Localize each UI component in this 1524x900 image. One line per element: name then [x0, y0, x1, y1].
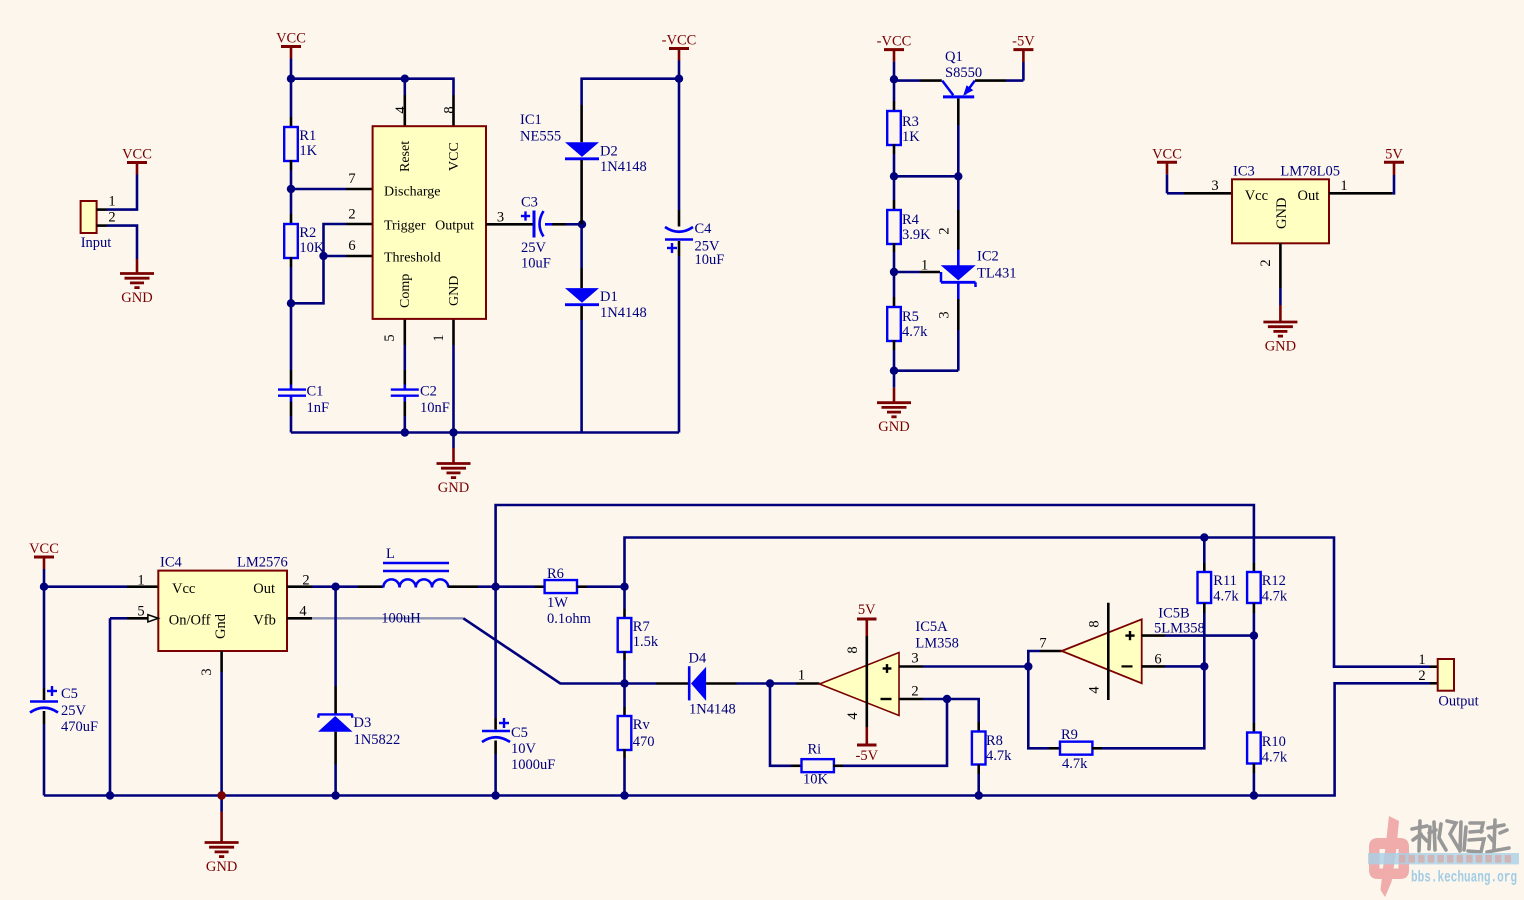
resistor R6	[496, 585, 535, 588]
node R5-gnd junction	[890, 367, 898, 375]
svg-text:R2: R2	[299, 225, 316, 241]
diode D2 1N4148	[580, 105, 583, 142]
wire ref pin 1 (TL431)	[894, 271, 920, 274]
svg-text:VCC: VCC	[29, 541, 59, 557]
node pin2 junction	[943, 695, 951, 703]
wire D2 top rail	[582, 79, 679, 105]
resistor Rv	[623, 684, 626, 708]
wire pin1 Vcc (IC4)	[44, 585, 127, 588]
svg-text:1: 1	[921, 258, 928, 274]
svg-text:C2: C2	[420, 384, 437, 400]
svg-text:10K: 10K	[803, 772, 829, 788]
watermark tagline bar	[1368, 853, 1519, 864]
svg-text:1: 1	[108, 194, 115, 210]
svg-text:Q1: Q1	[945, 49, 963, 65]
wire pin3 (IC5A +)	[899, 665, 923, 668]
wire pin1 (IC5A)	[770, 682, 796, 685]
svg-text:GND: GND	[206, 859, 237, 875]
connector Output	[1438, 659, 1454, 691]
svg-text:2: 2	[911, 684, 918, 700]
node pin3-pin7 junction	[1024, 662, 1032, 670]
svg-text:IC2: IC2	[977, 249, 999, 265]
svg-text:2: 2	[302, 573, 309, 589]
svg-text:D4: D4	[689, 651, 707, 667]
node C2 bus junction	[401, 428, 409, 436]
svg-text:1N5822: 1N5822	[354, 732, 401, 748]
wire pin3 Vcc (IC3)	[1167, 192, 1184, 195]
svg-text:7: 7	[348, 171, 355, 187]
svg-text:3: 3	[911, 651, 918, 667]
node R2-C1 junction	[287, 299, 295, 307]
resistor R3	[893, 79, 896, 101]
svg-text:Reset: Reset	[398, 141, 413, 172]
svg-text:5V: 5V	[858, 602, 876, 618]
wire pin6 Threshold	[346, 255, 373, 258]
svg-text:1N4148: 1N4148	[600, 305, 647, 321]
svg-text:GND: GND	[1265, 339, 1296, 355]
svg-text:2: 2	[1258, 259, 1274, 266]
connector J Input	[81, 201, 97, 233]
svg-text:25V: 25V	[521, 240, 547, 256]
svg-text:1: 1	[798, 668, 805, 684]
svg-text:R3: R3	[902, 114, 919, 130]
wire Vfb diagonal	[463, 618, 624, 683]
feedback rail 2	[625, 538, 1431, 667]
svg-text:3: 3	[937, 311, 953, 318]
pin 2 (Input)	[97, 224, 107, 227]
svg-text:Out: Out	[1298, 188, 1320, 204]
wire pin2 GND (IC3)	[1279, 243, 1282, 288]
svg-text:R12: R12	[1262, 573, 1286, 589]
wire pin1 to VCC	[107, 208, 137, 211]
svg-text:1000uF: 1000uF	[511, 757, 555, 773]
svg-text:C1: C1	[307, 384, 324, 400]
svg-text:8: 8	[845, 646, 861, 653]
svg-text:10nF: 10nF	[420, 400, 450, 416]
svg-text:IC4: IC4	[160, 555, 183, 571]
svg-text:Discharge: Discharge	[384, 185, 441, 200]
node D3 bus junction	[331, 791, 339, 799]
svg-text:2: 2	[108, 210, 115, 226]
svg-text:8: 8	[1086, 620, 1102, 627]
svg-text:R7: R7	[633, 619, 650, 635]
node VCC rail left	[287, 75, 295, 83]
svg-text:1K: 1K	[902, 129, 920, 145]
svg-text:100uH: 100uH	[381, 611, 421, 627]
svg-text:5V: 5V	[1385, 146, 1403, 162]
svg-text:-5V: -5V	[1012, 34, 1035, 50]
node -VCC base junction	[890, 75, 898, 83]
svg-text:C5: C5	[511, 725, 528, 741]
node Gnd bus junction (red)	[217, 791, 225, 799]
wire pin2 Trigger	[346, 223, 373, 226]
svg-text:VCC: VCC	[122, 147, 152, 163]
svg-text:Threshold: Threshold	[384, 251, 441, 266]
svg-text:On/Off: On/Off	[169, 613, 211, 629]
svg-text:Out: Out	[253, 581, 275, 597]
power -5V (IC5A pin4)	[865, 727, 868, 745]
svg-text:4.7k: 4.7k	[1213, 589, 1239, 605]
watermark forum name	[1412, 820, 1509, 852]
wire pin7 (IC5B out)	[1028, 651, 1040, 667]
node Out-D3 junction	[331, 583, 339, 591]
diode D1 1N4148	[580, 224, 583, 268]
wire pin4 Vfb light segment	[287, 617, 312, 620]
diode D3 1N5822	[334, 587, 337, 686]
svg-text:IC1: IC1	[520, 112, 542, 128]
wire pin7 Discharge	[291, 188, 346, 191]
wire pin8 stub	[452, 95, 455, 126]
svg-text:VCC: VCC	[276, 31, 306, 47]
svg-text:R9: R9	[1061, 727, 1078, 743]
node gnd junction (555)	[449, 428, 457, 436]
node rail2-R11 junction	[1200, 533, 1208, 541]
svg-text:Gnd: Gnd	[213, 613, 229, 639]
svg-text:4.7k: 4.7k	[986, 748, 1012, 764]
svg-text:GND: GND	[878, 419, 909, 435]
svg-text:Trigger: Trigger	[384, 219, 426, 234]
ground GND (input block)	[136, 258, 139, 261]
svg-text:470: 470	[633, 734, 655, 750]
wire emitter to -5V	[975, 79, 1006, 82]
bottom bus	[44, 683, 1430, 795]
node trigger-threshold junction	[319, 252, 327, 260]
svg-text:R6: R6	[547, 566, 564, 582]
svg-text:10V: 10V	[511, 741, 537, 757]
wire pin2 to GND	[107, 226, 137, 259]
svg-text:4.7k: 4.7k	[1062, 756, 1088, 772]
resistor R1	[290, 79, 293, 117]
wire pin1 Out (IC3)	[1329, 192, 1392, 195]
svg-text:4: 4	[393, 106, 409, 114]
svg-text:GND: GND	[447, 276, 462, 306]
svg-text:D1: D1	[600, 289, 618, 305]
svg-text:GND: GND	[438, 480, 469, 496]
wire pin5 (IC5B +)	[1142, 634, 1165, 637]
node On/Off bus junction	[106, 791, 114, 799]
node C5 bus junction	[491, 791, 499, 799]
svg-text:-VCC: -VCC	[662, 33, 697, 49]
svg-text:LM358: LM358	[915, 636, 959, 652]
svg-text:1nF: 1nF	[307, 400, 330, 416]
svg-text:3.9K: 3.9K	[902, 227, 931, 243]
node pin6 junction	[1200, 662, 1208, 670]
svg-text:TL431: TL431	[977, 266, 1016, 282]
svg-text:Rv: Rv	[633, 717, 651, 733]
svg-text:-VCC: -VCC	[877, 34, 912, 50]
svg-text:3: 3	[497, 210, 504, 226]
wire gnd bus (555)	[291, 431, 679, 434]
svg-text:1: 1	[137, 573, 144, 589]
node L-C5 junction	[491, 583, 499, 591]
svg-text:S8550: S8550	[945, 65, 982, 81]
svg-text:2: 2	[937, 227, 953, 234]
node R7-Rv-D4 junction	[620, 679, 628, 687]
svg-text:4: 4	[1086, 686, 1102, 694]
svg-text:4.7k: 4.7k	[1262, 589, 1288, 605]
wire pins 8-4 (IC5B)	[1107, 603, 1110, 700]
svg-text:C4: C4	[695, 221, 713, 237]
svg-text:8: 8	[442, 106, 458, 113]
svg-text:Vcc: Vcc	[1245, 188, 1268, 204]
node D4-pin1 junction	[766, 679, 774, 687]
node R3-R4 junction	[890, 172, 898, 180]
svg-text:1N4148: 1N4148	[689, 702, 736, 718]
capacitor C1	[290, 303, 293, 370]
svg-text:C5: C5	[61, 686, 78, 702]
wire pin5 On/Off	[148, 615, 158, 622]
svg-text:Output: Output	[1438, 694, 1478, 710]
op-amp IC5B LM358 body	[1062, 619, 1142, 683]
svg-text:IC5B: IC5B	[1158, 605, 1189, 621]
chip IC4 LM2576 body	[158, 571, 287, 651]
svg-text:VCC: VCC	[447, 142, 462, 171]
svg-text:470uF: 470uF	[61, 719, 98, 735]
svg-text:IC5A: IC5A	[915, 619, 948, 635]
svg-text:Ri: Ri	[808, 742, 822, 758]
svg-text:6: 6	[1154, 652, 1161, 668]
svg-text:GND: GND	[1274, 198, 1290, 229]
svg-text:R11: R11	[1213, 573, 1237, 589]
svg-text:Output: Output	[435, 219, 474, 234]
svg-text:7: 7	[1039, 636, 1046, 652]
feedback rail 1	[496, 505, 1254, 587]
svg-text:IC3: IC3	[1233, 164, 1255, 180]
svg-text:3: 3	[199, 668, 215, 675]
svg-text:10uF: 10uF	[695, 252, 725, 268]
node -VCC junction	[675, 75, 683, 83]
svg-text:2: 2	[1418, 668, 1425, 684]
capacitor C2	[403, 345, 406, 370]
resistor R7	[623, 587, 626, 609]
svg-text:4: 4	[845, 712, 861, 720]
wire pin6 (IC5B -)	[1142, 665, 1165, 668]
svg-text:LM78L05: LM78L05	[1280, 164, 1340, 180]
svg-text:1: 1	[1340, 178, 1347, 194]
svg-text:4.7k: 4.7k	[902, 324, 928, 340]
node Rv bus junction	[620, 791, 628, 799]
svg-text:5: 5	[137, 604, 144, 620]
diode D4 1N4148	[625, 682, 657, 685]
node R6-R7 junction	[620, 583, 628, 591]
svg-text:4.7k: 4.7k	[1262, 749, 1288, 765]
node R4-R5 junction	[890, 268, 898, 276]
svg-text:NE555: NE555	[520, 129, 561, 145]
svg-text:5: 5	[382, 334, 398, 341]
op-amp IC5A LM358 body	[820, 653, 900, 716]
node C3-D1-D2 junction	[578, 220, 586, 228]
ground GND (555)	[452, 433, 455, 449]
svg-text:1K: 1K	[299, 143, 317, 159]
svg-text:1: 1	[1418, 652, 1425, 668]
node Gnd bus junction red top	[217, 791, 225, 799]
svg-text:R10: R10	[1262, 734, 1286, 750]
svg-text:Comp: Comp	[398, 274, 413, 308]
capacitor C5 1000uF	[494, 587, 497, 718]
wire pin3 Gnd (IC4)	[220, 651, 223, 672]
svg-text:1N4148: 1N4148	[600, 159, 647, 175]
resistor R12	[1253, 563, 1256, 572]
capacitor C3	[533, 211, 536, 238]
svg-text:D2: D2	[600, 144, 618, 160]
watermark logo glyph	[1369, 816, 1409, 897]
resistor R4	[893, 176, 896, 200]
node R8 bus junction	[975, 791, 983, 799]
svg-text:R8: R8	[986, 733, 1003, 749]
node pin5-R12 junction	[1250, 631, 1258, 639]
svg-text:LM2576: LM2576	[237, 555, 288, 571]
wire pin1 GND (555)	[452, 319, 455, 345]
svg-text:1: 1	[431, 334, 447, 341]
capacitor C4	[678, 79, 681, 210]
ground GND (IC3)	[1279, 304, 1282, 307]
wire pin3 Output	[486, 223, 533, 226]
wire pin2 Out (IC4)	[287, 585, 312, 588]
svg-text:VCC: VCC	[1152, 146, 1182, 162]
svg-text:1.5k: 1.5k	[633, 634, 659, 650]
svg-text:3: 3	[1211, 178, 1218, 194]
wire base	[894, 79, 920, 82]
wire collector	[957, 99, 960, 126]
svg-text:R5: R5	[902, 309, 919, 325]
svg-text:2: 2	[348, 206, 355, 222]
op chip IC1 NE555 body	[373, 126, 486, 319]
ground GND (Q1 block)	[893, 371, 896, 388]
svg-text:GND: GND	[121, 290, 152, 306]
svg-text:bbs.kechuang.org: bbs.kechuang.org	[1411, 869, 1517, 887]
wire pin2 (IC5A -)	[899, 698, 923, 701]
node R10 bus junction	[1250, 791, 1258, 799]
resistor R5	[893, 272, 896, 297]
wire pin5 Comp stub	[403, 319, 406, 345]
svg-text:25V: 25V	[61, 703, 87, 719]
svg-text:6: 6	[348, 238, 355, 254]
resistor R2	[290, 189, 293, 214]
capacitor C5 470uF	[43, 587, 46, 688]
node VCC junction (LM2576)	[40, 583, 48, 591]
svg-text:Vfb: Vfb	[253, 613, 276, 629]
svg-text:D3: D3	[354, 715, 372, 731]
svg-text:Input: Input	[81, 235, 112, 251]
svg-text:10uF: 10uF	[521, 256, 551, 272]
node discharge junction	[287, 185, 295, 193]
svg-text:C3: C3	[521, 195, 538, 211]
svg-text:L: L	[386, 546, 395, 562]
ground GND (LM2576)	[220, 796, 223, 812]
regulator IC3 LM78L05 body	[1232, 179, 1329, 243]
resistor R10	[1253, 636, 1256, 723]
resistor R9	[1028, 667, 1049, 749]
svg-text:R4: R4	[902, 212, 920, 228]
wire pin4 stub	[403, 79, 406, 95]
resistor R11	[1203, 538, 1206, 564]
pin 1 (Input)	[97, 208, 107, 211]
svg-text:4: 4	[299, 604, 307, 620]
resistor R8	[947, 699, 979, 722]
svg-text:-5V: -5V	[856, 748, 879, 764]
svg-text:0.1ohm: 0.1ohm	[547, 611, 592, 627]
resistor Ri	[770, 684, 791, 766]
svg-text:1W: 1W	[547, 595, 568, 611]
svg-text:R1: R1	[299, 128, 316, 144]
svg-text:Vcc: Vcc	[172, 581, 195, 597]
